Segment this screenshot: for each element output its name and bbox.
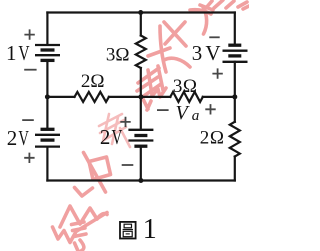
svg-text:2: 2 — [200, 127, 210, 148]
watermark stamp (pink) — [53, 0, 250, 251]
resistor 2ohm vertical right — [230, 122, 240, 157]
plus sign 1V top — [24, 29, 34, 39]
wire right rail lower (2ohm resistor to bottom rail) — [234, 157, 236, 181]
caption figure char (圖) drawn — [120, 222, 136, 239]
wire middle branch upper (top junction to 3ohm resistor) — [140, 13, 142, 36]
wire middle branch (3ohm resistor to center junction to 2V battery) — [140, 68, 142, 130]
wire right rail middle (3V battery to 2ohm resistor) — [234, 62, 236, 122]
polarity signs — [22, 29, 223, 165]
minus sign 2V-middle bottom — [122, 164, 134, 166]
svg-text:3: 3 — [173, 76, 183, 97]
svg-text:Ω: Ω — [115, 45, 129, 66]
wire middle branch lower (2V battery to bottom junction) — [140, 146, 142, 180]
svg-text:V: V — [205, 41, 220, 65]
wire top rail — [47, 11, 234, 13]
battery 2V middle plates — [128, 130, 153, 146]
watermark char 2 (中-like) — [75, 153, 111, 197]
svg-text:2: 2 — [7, 126, 17, 150]
svg-text:Ω: Ω — [90, 71, 104, 92]
svg-text:1: 1 — [143, 214, 157, 245]
svg-text:a: a — [192, 108, 200, 124]
wire bottom rail — [47, 179, 234, 181]
watermark char 6 (top-right partial) — [205, 0, 249, 9]
svg-text:2: 2 — [81, 71, 91, 92]
junction node center — [138, 94, 143, 99]
svg-text:Ω: Ω — [183, 76, 197, 97]
wire middle rail center (2ohm resistor to 3ohm resistor) — [109, 96, 170, 98]
svg-text:V: V — [18, 126, 29, 150]
battery 1V plates — [35, 45, 60, 60]
junction node right-middle — [232, 94, 237, 99]
battery 2V left plates — [35, 129, 60, 146]
plus sign 3V bottom — [212, 68, 222, 78]
svg-text:3: 3 — [192, 41, 203, 65]
wire middle rail left (left junction to 2ohm resistor) — [47, 96, 74, 98]
junction node left-middle — [45, 94, 50, 99]
watermark char 3 (light hatch) — [99, 114, 130, 147]
minus sign Va left — [157, 109, 169, 111]
minus sign 1V bottom — [24, 69, 36, 71]
minus sign 3V top — [209, 36, 219, 38]
resistor 3ohm vertical middle branch — [136, 36, 146, 69]
plus sign 2V-middle top — [120, 117, 130, 127]
wire left rail middle (1V battery to middle rail junction, to 2V battery) — [46, 60, 48, 129]
svg-text:V: V — [18, 41, 29, 65]
wire left rail upper (top corner to 1V battery) — [46, 13, 48, 45]
wire middle rail right (3ohm resistor to right junction) — [203, 96, 235, 98]
resistor 3ohm horizontal middle-right — [170, 92, 203, 102]
wire right rail upper (top corner to 3V battery) — [234, 13, 236, 46]
junction node bottom — [138, 178, 143, 183]
svg-text:3: 3 — [106, 45, 116, 66]
plus sign Va right — [205, 104, 215, 114]
circuit ink — [47, 13, 239, 181]
svg-text:1: 1 — [6, 41, 17, 65]
watermark char 5 (校-like) — [148, 5, 213, 72]
svg-text:V: V — [112, 125, 123, 149]
watermark char 4 (dense, 職-like) — [137, 58, 190, 110]
svg-text:2: 2 — [100, 125, 111, 149]
wire left rail lower (2V battery to bottom rail) — [46, 147, 48, 181]
watermark char 1 (bottom, 級-like) — [53, 206, 108, 251]
svg-text:Ω: Ω — [210, 127, 224, 148]
junction node top — [138, 10, 143, 15]
minus sign 2V-left top — [22, 119, 34, 121]
resistor 2ohm horizontal middle-left — [75, 92, 109, 102]
battery 3V plates — [223, 45, 248, 62]
plus sign 2V-left bottom — [24, 153, 34, 163]
